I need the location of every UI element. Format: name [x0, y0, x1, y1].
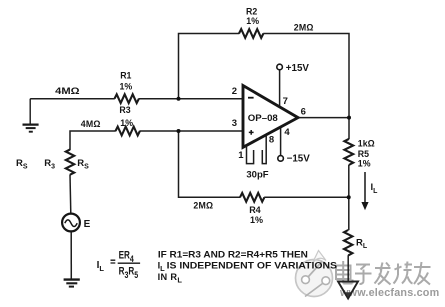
+15V supply terminal — [277, 63, 310, 74]
svg-text:1: 1 — [238, 150, 244, 161]
svg-text:ER4: ER4 — [119, 249, 134, 264]
wire top feedback right — [263, 34, 349, 140]
svg-text:R3: R3 — [119, 105, 130, 115]
wire feedback bottom vertical — [179, 131, 241, 197]
svg-text:1%: 1% — [358, 158, 371, 168]
wire source E to ground — [70, 231, 72, 279]
svg-text:IF R1=R3 AND R2=R4+R5 THEN: IF R1=R3 AND R2=R4+R5 THEN — [158, 250, 308, 260]
svg-text:30pF: 30pF — [246, 169, 268, 180]
svg-text:1%: 1% — [246, 16, 259, 26]
svg-text:4MΩ: 4MΩ — [81, 119, 101, 129]
svg-text:3: 3 — [232, 118, 237, 129]
svg-text:RL: RL — [356, 238, 368, 251]
op-amp U1 OP-08 — [232, 70, 306, 161]
source E — [62, 214, 91, 232]
svg-text:1kΩ: 1kΩ — [358, 138, 375, 148]
wire R3 to op-amp pin 3 — [140, 130, 243, 132]
svg-text:R4: R4 — [249, 205, 261, 215]
svg-text:4MΩ: 4MΩ — [55, 86, 79, 96]
condition text — [158, 250, 337, 285]
svg-text:R3R5: R3R5 — [119, 265, 139, 280]
resistor R4 — [193, 193, 264, 225]
svg-text:R2: R2 — [246, 6, 257, 16]
svg-text:8: 8 — [269, 134, 274, 145]
resistor R2 — [239, 6, 314, 38]
svg-text:R5: R5 — [358, 149, 369, 159]
resistor RS (source branch) — [16, 150, 89, 175]
svg-text:1%: 1% — [250, 215, 263, 225]
svg-text:E: E — [84, 219, 91, 230]
resistor R1 — [55, 70, 139, 103]
svg-text:7: 7 — [283, 96, 288, 107]
wire R5 to node to RL — [348, 165, 350, 230]
wire R1 to op-amp pin 2 — [139, 98, 243, 100]
svg-text:+15V: +15V — [286, 63, 310, 74]
wire R3 input branch — [70, 131, 116, 150]
svg-text:1%: 1% — [120, 118, 133, 128]
-15V supply terminal — [278, 154, 310, 165]
svg-text:6: 6 — [301, 106, 306, 117]
formula IL = ER4/R3R5 — [97, 249, 141, 280]
ground (below RL, chassis style) — [338, 282, 358, 299]
svg-text:RS: RS — [16, 158, 28, 171]
ground (below source E) — [64, 280, 80, 287]
wire top feedback left — [179, 34, 240, 98]
node output junction — [347, 116, 351, 120]
svg-text:IL: IL — [97, 260, 105, 273]
node pin3 junction — [177, 129, 181, 133]
capacitor C1 30pF (pins 1-8) — [246, 135, 268, 180]
wire RL to ground — [347, 255, 349, 281]
svg-text:IL: IL — [371, 182, 379, 195]
svg-text:2MΩ: 2MΩ — [294, 23, 314, 33]
node pin2 junction — [177, 97, 181, 101]
svg-text:−15V: −15V — [287, 154, 311, 165]
watermark chinese glyphs — [336, 261, 431, 285]
wire RS to source E — [69, 175, 72, 214]
node R4-R5 junction — [347, 195, 351, 199]
svg-text:R3: R3 — [44, 158, 55, 171]
resistor RL — [344, 230, 368, 255]
svg-text:RS: RS — [77, 158, 89, 171]
svg-text:2: 2 — [232, 86, 237, 97]
wire R1 input from ground — [30, 98, 115, 100]
svg-text:R1: R1 — [120, 70, 131, 80]
resistor R3 — [81, 105, 140, 135]
svg-text:OP–08: OP–08 — [248, 113, 278, 123]
svg-text:IN RL: IN RL — [158, 272, 183, 285]
wire R4 to output node — [264, 196, 349, 198]
resistor R5 — [344, 138, 374, 168]
svg-text:1%: 1% — [120, 81, 133, 91]
svg-text:4: 4 — [284, 127, 290, 138]
wire op-amp output — [298, 117, 349, 119]
ground (left input) — [23, 99, 39, 132]
svg-text:2MΩ: 2MΩ — [193, 200, 213, 210]
current arrow IL — [361, 172, 378, 210]
watermark logo — [296, 251, 333, 297]
svg-text:IS INDEPENDENT OF VARIATIONS: IS INDEPENDENT OF VARIATIONS — [167, 261, 337, 271]
